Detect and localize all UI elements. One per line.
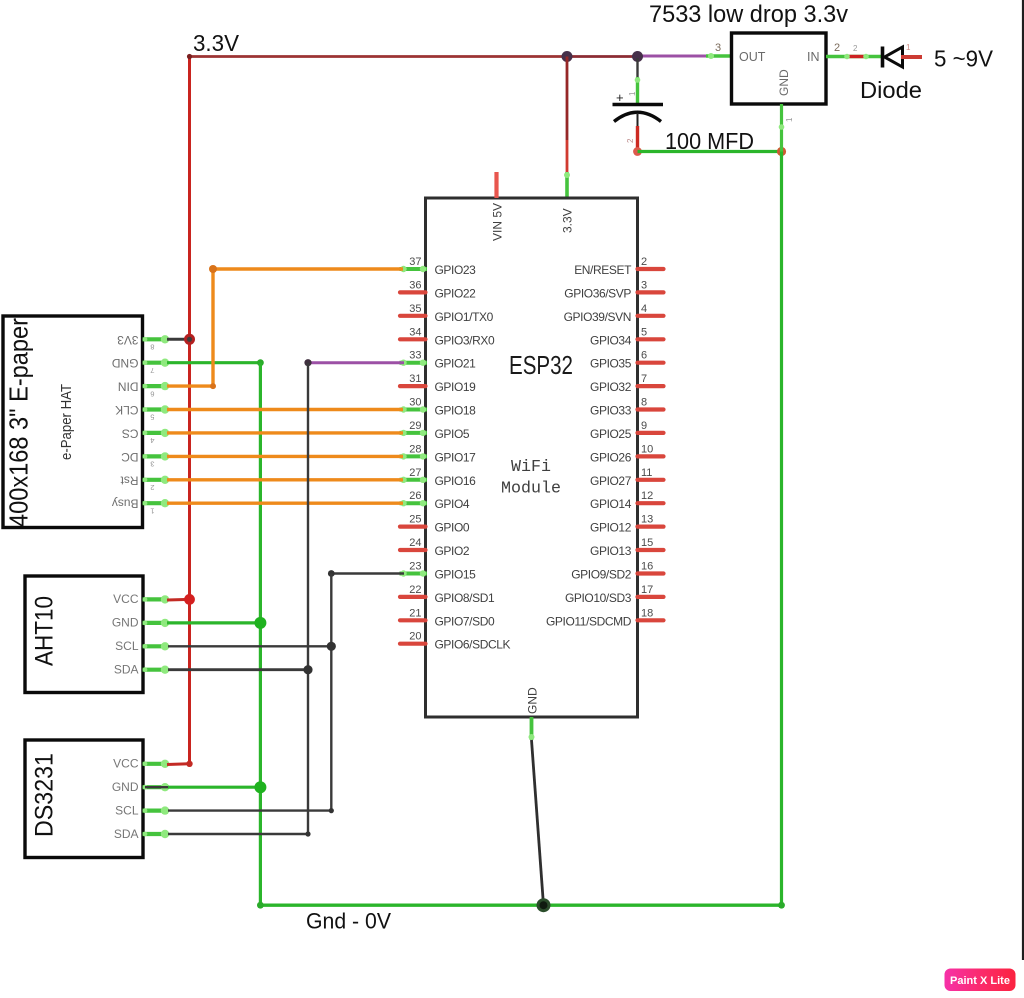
- svg-text:400x168 3" E-paper: 400x168 3" E-paper: [4, 318, 34, 527]
- svg-text:GPIO6/SDCLK: GPIO6/SDCLK: [435, 638, 511, 652]
- pin 21 GPIO7/SD0: [400, 607, 495, 628]
- svg-text:6: 6: [150, 389, 154, 398]
- svg-text:2: 2: [150, 483, 154, 492]
- svg-text:GPIO36/SVP: GPIO36/SVP: [564, 286, 631, 300]
- pin 2 Rst (e-paper): [120, 473, 169, 492]
- svg-text:23: 23: [409, 561, 421, 573]
- wire GPIO15 dark SCL bus: [331, 572, 404, 575]
- rtc DS3231: [25, 740, 143, 858]
- svg-text:3: 3: [150, 460, 154, 469]
- svg-text:2: 2: [834, 42, 840, 54]
- sensor AHT10: [25, 576, 143, 693]
- svg-text:Rst: Rst: [120, 473, 139, 487]
- pin SDA (DS3231): [114, 827, 169, 841]
- svg-text:GPIO27: GPIO27: [590, 474, 632, 488]
- junction AHT10 VCC: [184, 594, 195, 605]
- pin 6 DIN (e-paper): [118, 380, 169, 399]
- wire purple to regulator OUT: [638, 55, 706, 58]
- pin VCC (AHT10): [113, 592, 169, 606]
- svg-text:GND: GND: [526, 687, 540, 714]
- svg-text:GPIO35: GPIO35: [590, 357, 632, 371]
- svg-text:GPIO13: GPIO13: [590, 544, 632, 558]
- wire diode anode to supply: [901, 55, 922, 59]
- svg-text:GPIO18: GPIO18: [435, 404, 477, 418]
- svg-text:GPIO15: GPIO15: [435, 568, 477, 582]
- wire ESP32 GND to rail (slanted): [532, 740, 544, 905]
- pin 36 GPIO22: [400, 279, 476, 300]
- pin 37 GPIO23: [400, 256, 477, 277]
- wire e-paper 3V3 to 3.3V rail: [167, 338, 186, 341]
- svg-text:21: 21: [409, 607, 421, 619]
- pin 3 GPIO36/SVP: [564, 279, 663, 300]
- svg-text:8: 8: [641, 397, 647, 409]
- node rail corner: [187, 54, 192, 59]
- svg-text:2: 2: [641, 256, 647, 268]
- svg-text:7: 7: [641, 373, 647, 385]
- wire AHT10 SDA dark: [168, 668, 308, 671]
- svg-text:22: 22: [409, 584, 421, 596]
- svg-text:18: 18: [641, 607, 653, 619]
- svg-text:2: 2: [853, 44, 858, 53]
- wire e-paper Rst to GPIO16: [167, 478, 403, 481]
- pin 18 GPIO11/SDCMD: [546, 607, 664, 628]
- svg-text:Diode: Diode: [860, 77, 922, 103]
- svg-text:OUT: OUT: [739, 50, 766, 64]
- pin 1 Busy (e-paper): [112, 497, 169, 516]
- svg-text:GPIO7/SD0: GPIO7/SD0: [435, 614, 495, 628]
- junction 3V3 rail: [184, 334, 195, 345]
- svg-text:GPIO8/SD1: GPIO8/SD1: [435, 591, 495, 605]
- svg-text:GPIO1/TX0: GPIO1/TX0: [435, 310, 494, 324]
- pin 6 GPIO35: [590, 350, 663, 371]
- svg-text:4: 4: [150, 436, 154, 445]
- svg-text:17: 17: [641, 584, 653, 596]
- junction DS3231 GND: [254, 781, 266, 793]
- svg-text:SDA: SDA: [114, 663, 139, 677]
- diode D1: [883, 47, 903, 68]
- wire GPIO21 purple SDA bus: [308, 361, 404, 364]
- junction gnd vertical: [777, 147, 786, 156]
- svg-text:CS: CS: [122, 426, 139, 440]
- wire DS3231 GND green: [145, 786, 168, 788]
- svg-text:GND: GND: [777, 69, 791, 96]
- node capacitor to gnd: [633, 147, 642, 156]
- svg-text:ESP32: ESP32: [509, 350, 573, 380]
- pin VCC (DS3231): [113, 757, 169, 771]
- wire 3.3V left vertical rail: [188, 57, 191, 764]
- junction AHT10 SCL: [327, 642, 336, 651]
- svg-text:GPIO17: GPIO17: [435, 450, 477, 464]
- svg-text:1: 1: [150, 506, 154, 515]
- svg-text:34: 34: [409, 326, 421, 338]
- svg-text:GPIO39/SVN: GPIO39/SVN: [564, 310, 631, 324]
- svg-text:CLK: CLK: [115, 403, 138, 417]
- svg-text:7: 7: [150, 366, 154, 375]
- pin SCL (DS3231): [115, 803, 169, 817]
- wire regulator IN to diode: [826, 55, 882, 58]
- svg-text:SDA: SDA: [114, 827, 139, 841]
- svg-text:GPIO3/RX0: GPIO3/RX0: [435, 333, 495, 347]
- pin 15 GPIO13: [590, 537, 663, 558]
- svg-text:3: 3: [641, 279, 647, 291]
- svg-text:29: 29: [409, 420, 421, 432]
- svg-text:GPIO2: GPIO2: [435, 544, 470, 558]
- pin 27 GPIO16: [400, 467, 477, 488]
- pin 17 GPIO10/SD3: [565, 584, 664, 605]
- pin 34 GPIO3/RX0: [400, 326, 495, 347]
- wire e-paper DC to GPIO17: [167, 455, 403, 458]
- pin 4 CS (e-paper): [122, 426, 169, 445]
- wire DS3231 SCL dark: [168, 809, 331, 811]
- pin 11 GPIO27: [590, 467, 663, 488]
- pin 28 GPIO17: [400, 443, 477, 464]
- svg-text:10: 10: [641, 443, 653, 455]
- svg-text:GPIO11/SDCMD: GPIO11/SDCMD: [546, 614, 632, 628]
- wire e-paper CS to GPIO5: [167, 431, 403, 434]
- svg-text:GPIO19: GPIO19: [435, 380, 477, 394]
- svg-text:SCL: SCL: [115, 639, 139, 653]
- svg-text:e-Paper HAT: e-Paper HAT: [58, 384, 75, 460]
- pin 9 GPIO25: [590, 420, 663, 441]
- svg-text:IN: IN: [807, 50, 820, 64]
- svg-text:Busy: Busy: [112, 497, 139, 511]
- svg-text:GPIO14: GPIO14: [590, 497, 632, 511]
- svg-text:1: 1: [906, 43, 911, 52]
- svg-text:31: 31: [409, 373, 421, 385]
- svg-text:GPIO25: GPIO25: [590, 427, 632, 441]
- wire e-paper Busy to GPIO4: [167, 502, 403, 505]
- capacitor C1 100 MFD polarized: [613, 90, 664, 143]
- junction node at VIN drop: [562, 51, 573, 62]
- svg-text:100 MFD: 100 MFD: [665, 128, 754, 154]
- pin 7 GPIO32: [590, 373, 663, 394]
- svg-text:Module: Module: [501, 480, 561, 499]
- module ESP32 body: [426, 198, 638, 717]
- wire DS3231 SDA dark: [168, 833, 308, 835]
- svg-text:4: 4: [641, 303, 647, 315]
- pin 30 GPIO18: [400, 397, 477, 418]
- wire AHT10 SCL dark: [168, 645, 331, 647]
- pin 23 GPIO15: [400, 561, 477, 582]
- svg-text:35: 35: [409, 303, 421, 315]
- wire bottom gnd rail: [260, 904, 781, 907]
- svg-text:1: 1: [785, 117, 794, 122]
- pin 8 3V3 (e-paper): [117, 333, 169, 352]
- svg-text:GPIO4: GPIO4: [435, 497, 470, 511]
- svg-text:GPIO26: GPIO26: [590, 450, 632, 464]
- pin GND (DS3231): [112, 780, 169, 794]
- node DIN corner: [209, 265, 217, 273]
- pin 7 GND (e-paper): [112, 356, 170, 375]
- pin 13 GPIO12: [590, 514, 663, 535]
- svg-text:6: 6: [641, 350, 647, 362]
- svg-text:1: 1: [628, 91, 637, 96]
- wire rail segment between junctions: [567, 55, 638, 58]
- pin 35 GPIO1/TX0: [400, 303, 494, 324]
- svg-text:GPIO21: GPIO21: [435, 357, 477, 371]
- svg-text:WiFi: WiFi: [511, 458, 551, 477]
- svg-text:DS3231: DS3231: [31, 753, 59, 837]
- svg-text:5: 5: [150, 413, 154, 422]
- svg-text:13: 13: [641, 514, 653, 526]
- svg-text:GPIO22: GPIO22: [435, 286, 477, 300]
- svg-text:9: 9: [641, 420, 647, 432]
- pin 12 GPIO14: [590, 490, 663, 511]
- junction AHT10 GND: [254, 617, 266, 629]
- pin 25 GPIO0: [400, 514, 470, 535]
- wire red drop to ESP32 3.3V pin: [566, 57, 569, 141]
- svg-text:GND: GND: [112, 780, 139, 794]
- svg-text:VCC: VCC: [113, 592, 139, 606]
- svg-text:30: 30: [409, 397, 421, 409]
- svg-text:33: 33: [409, 350, 421, 362]
- module e-Paper HAT 400x168: [3, 316, 143, 528]
- svg-text:GPIO16: GPIO16: [435, 474, 477, 488]
- svg-text:24: 24: [409, 537, 421, 549]
- svg-text:+: +: [616, 90, 624, 105]
- svg-text:SCL: SCL: [115, 803, 139, 817]
- pin 8 GPIO33: [590, 397, 663, 418]
- svg-text:11: 11: [641, 467, 652, 479]
- wire 3.3V rail horizontal: [190, 55, 568, 58]
- pin GND (bottom): [530, 717, 534, 740]
- wire 100MFD gnd link: [638, 150, 782, 153]
- svg-text:5: 5: [641, 326, 647, 338]
- svg-text:3.3V: 3.3V: [193, 30, 240, 56]
- regulator U1 7533: [732, 33, 827, 104]
- junction AHT10 SDA: [303, 665, 312, 674]
- wire DS3231 VCC red: [167, 762, 190, 766]
- svg-text:GPIO5: GPIO5: [435, 427, 470, 441]
- pin 24 GPIO2: [400, 537, 470, 558]
- junction node at capacitor top: [632, 51, 643, 62]
- wire e-paper CLK to GPIO18: [167, 408, 403, 411]
- svg-text:25: 25: [409, 514, 421, 526]
- pin SDA (AHT10): [114, 663, 169, 677]
- svg-text:2: 2: [626, 138, 635, 143]
- svg-text:GPIO10/SD3: GPIO10/SD3: [565, 591, 632, 605]
- svg-text:Gnd - 0V: Gnd - 0V: [306, 909, 391, 934]
- svg-text:27: 27: [409, 467, 421, 479]
- wire AHT10 GND green: [167, 621, 260, 624]
- pin 20 GPIO6/SDCLK: [400, 631, 511, 652]
- pin 16 GPIO9/SD2: [571, 561, 663, 582]
- svg-text:7533 low drop 3.3v: 7533 low drop 3.3v: [649, 1, 848, 28]
- pin 3 DC (e-paper): [121, 450, 169, 469]
- wire e-paper DIN orange: [167, 384, 213, 387]
- pin 5 GPIO34: [590, 326, 663, 347]
- svg-text:16: 16: [641, 561, 653, 573]
- svg-text:GPIO23: GPIO23: [435, 263, 477, 277]
- svg-text:20: 20: [409, 631, 421, 643]
- pin VIN 5V (top): [494, 172, 498, 198]
- wire junction to capacitor plus: [636, 58, 638, 77]
- wire left gnd vertical: [259, 363, 262, 906]
- pin 22 GPIO8/SD1: [400, 584, 495, 605]
- pin 26 GPIO4: [400, 490, 470, 511]
- pin SCL (AHT10): [115, 639, 169, 653]
- svg-text:37: 37: [409, 256, 421, 268]
- svg-text:GPIO0: GPIO0: [435, 521, 470, 535]
- wire capacitor negative lead: [636, 126, 639, 152]
- svg-text:VCC: VCC: [113, 757, 139, 771]
- border scroll line right edge: [1022, 0, 1024, 960]
- svg-text:EN/RESET: EN/RESET: [574, 263, 632, 277]
- pin 29 GPIO5: [400, 420, 470, 441]
- pin 5 CLK (e-paper): [115, 403, 169, 422]
- svg-text:26: 26: [409, 490, 421, 502]
- svg-text:VIN 5V: VIN 5V: [491, 203, 505, 241]
- wire right gnd vertical rail: [780, 152, 783, 906]
- svg-text:GPIO33: GPIO33: [590, 404, 632, 418]
- svg-text:GND: GND: [112, 356, 139, 370]
- pin 10 GPIO26: [590, 443, 663, 464]
- svg-text:5 ~9V: 5 ~9V: [934, 46, 993, 72]
- svg-text:3: 3: [715, 42, 721, 54]
- svg-text:28: 28: [409, 443, 421, 455]
- svg-text:GPIO12: GPIO12: [590, 521, 632, 535]
- wire AHT10 VCC red: [167, 598, 190, 602]
- wire regulator GND down: [780, 104, 783, 152]
- svg-text:Paint X Lite: Paint X Lite: [950, 975, 1010, 987]
- svg-text:12: 12: [641, 490, 653, 502]
- svg-text:3.3V: 3.3V: [561, 208, 575, 233]
- svg-text:AHT10: AHT10: [31, 596, 59, 666]
- pin GND (AHT10): [112, 616, 169, 630]
- svg-text:15: 15: [641, 537, 653, 549]
- pin 33 GPIO21: [400, 350, 477, 371]
- node gnd corner: [257, 359, 264, 366]
- svg-text:GND: GND: [112, 616, 139, 630]
- svg-text:8: 8: [150, 343, 154, 352]
- svg-text:GPIO9/SD2: GPIO9/SD2: [571, 568, 631, 582]
- svg-text:GPIO34: GPIO34: [590, 333, 632, 347]
- junction gnd rail: [537, 898, 551, 912]
- svg-text:GPIO32: GPIO32: [590, 380, 632, 394]
- svg-text:DIN: DIN: [118, 380, 139, 394]
- svg-text:36: 36: [409, 279, 421, 291]
- svg-text:DC: DC: [121, 450, 139, 464]
- pin 31 GPIO19: [400, 373, 476, 394]
- pin 4 GPIO39/SVN: [564, 303, 664, 324]
- wire e-paper GND to gnd vertical: [167, 361, 260, 364]
- pin 2 EN/RESET: [574, 256, 663, 277]
- svg-text:3V3: 3V3: [117, 333, 139, 347]
